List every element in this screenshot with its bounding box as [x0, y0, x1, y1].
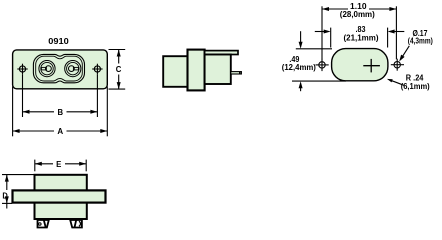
side view top tab [205, 51, 238, 55]
side view rear housing [205, 55, 231, 85]
rear view obround body [332, 49, 388, 81]
side view front housing [163, 56, 188, 87]
dimension B extension lines [23, 74, 98, 117]
svg-text:E: E [56, 159, 61, 169]
connector body (front view) [13, 50, 108, 89]
socket contact right ring [65, 61, 81, 77]
dimension .83 line and arrows [315, 31, 405, 33]
dimension A extension lines [13, 87, 108, 137]
leader line for Ø.17 [403, 46, 410, 57]
svg-text:B: B [58, 107, 64, 117]
svg-text:(12,4mm): (12,4mm) [282, 63, 316, 72]
figure-8 recess inner outline [36, 56, 83, 81]
svg-text:0910: 0910 [48, 37, 69, 46]
terminal foot right [70, 220, 82, 228]
svg-text:D: D [2, 190, 7, 200]
socket contact left pin [41, 66, 51, 72]
dimension B line and arrows [23, 111, 98, 113]
dimension .49 extension lines [292, 49, 346, 81]
side view flange [188, 50, 205, 91]
dimension 1.10 extension lines [322, 6, 396, 59]
svg-text:(4,3mm): (4,3mm) [408, 36, 433, 45]
dimension C line and arrows [118, 50, 120, 90]
rear view mounting hole right [391, 59, 404, 71]
rear view mounting hole left [316, 59, 329, 71]
leader line for R .24 [392, 81, 405, 86]
dimension .83 extension lines [331, 28, 388, 48]
terminal foot left [38, 220, 49, 228]
svg-text:C: C [116, 64, 122, 74]
dimension D line and arrows [6, 175, 8, 209]
svg-text:A: A [57, 126, 63, 136]
dimension .49 line and arrows [300, 31, 302, 91]
bottom view housing [35, 175, 87, 219]
figure-8 recess outer outline [33, 54, 84, 82]
dimension C extension lines [109, 50, 126, 90]
mounting hole left (front) [17, 64, 27, 74]
dimension E line and arrows [35, 163, 86, 165]
svg-text:(6,1mm): (6,1mm) [401, 82, 430, 91]
bottom view flange bar [13, 190, 106, 202]
svg-text:(21,1mm): (21,1mm) [344, 34, 379, 43]
dimension E extension lines [35, 160, 86, 172]
mounting hole right (front) [92, 64, 102, 74]
socket contact right pin [69, 66, 79, 72]
dimension A line and arrows [13, 130, 108, 132]
side view terminal pin [231, 72, 242, 74]
rear view center cross [363, 59, 380, 73]
dimension 1.10 line and arrows [322, 8, 396, 10]
socket contact left ring [39, 61, 55, 77]
dimension D extension lines [2, 175, 34, 204]
svg-text:(28,0mm): (28,0mm) [340, 10, 375, 19]
